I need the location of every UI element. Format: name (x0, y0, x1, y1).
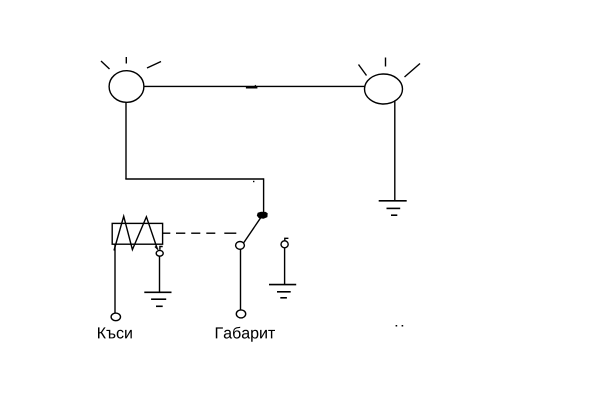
wire relay terminal to ground (159, 256, 161, 292)
lamp L2 (right headlamp) (359, 58, 421, 105)
ground G3 (relay terminal) (144, 292, 171, 306)
relay lower-right terminal circle (156, 250, 163, 256)
wire relay left to Kasi terminal (114, 244, 116, 313)
ground G2 (switch right contact) (269, 285, 296, 298)
switch S1 pivot terminal (236, 242, 245, 250)
lamp L1 (left headlamp) (101, 57, 161, 102)
relay coil K1 (112, 216, 162, 250)
wire top between lamps (144, 85, 365, 87)
switch right contact terminal (281, 241, 288, 248)
terminal circle Kasi (111, 313, 120, 321)
label Gabarit (216, 327, 275, 342)
relay output stub (163, 232, 171, 234)
wire right lamp down (394, 100, 396, 200)
relay lower-right terminal hook (160, 247, 163, 250)
ground G1 (right lamp) (379, 201, 407, 215)
relay lower-right terminal tick (155, 247, 158, 250)
switch S1 lever (244, 217, 261, 243)
label Kasi (98, 327, 132, 338)
stray dots (396, 325, 404, 327)
switch right contact hook (285, 238, 289, 241)
wire switch to Gabarit terminal (240, 249, 242, 309)
dashed linkage relay to switch (176, 232, 236, 234)
switch S1 common contact blob (257, 212, 268, 219)
wire horizontal to switch (125, 178, 263, 180)
stray dot near corner (253, 181, 254, 182)
wire down to switch contact (263, 178, 265, 212)
wire left lamp down (125, 102, 127, 179)
terminal circle Gabarit (236, 310, 245, 318)
wire right contact to ground (284, 248, 286, 285)
arrow tick on top wire (246, 85, 258, 89)
